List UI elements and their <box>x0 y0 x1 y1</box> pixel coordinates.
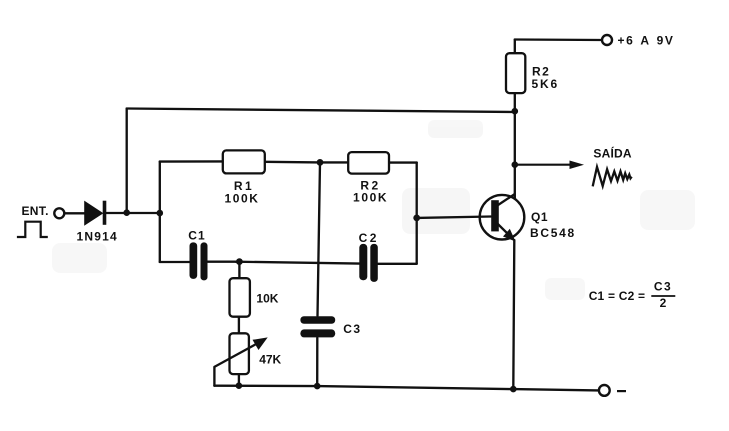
wire C2 to loop right vertical <box>378 263 417 265</box>
wire diode to left vertical <box>107 212 160 214</box>
arrow saida output <box>515 161 584 170</box>
label minus <box>617 390 626 392</box>
wire 10K to 47K <box>238 317 240 334</box>
svg-text:C3: C3 <box>343 322 361 336</box>
node C1-10K junction <box>236 258 243 265</box>
terminal ENT <box>54 208 64 218</box>
wire loop top left segment to R1 <box>160 160 223 163</box>
svg-text:2: 2 <box>660 296 667 310</box>
wire 47K to bottom rail <box>238 374 240 386</box>
wire base from loop to transistor <box>417 217 491 218</box>
waveform output sawtooth <box>593 167 632 187</box>
svg-text:ENT.: ENT. <box>22 204 49 218</box>
svg-text:BC548: BC548 <box>530 226 576 240</box>
svg-text:C1: C1 <box>188 229 205 243</box>
capacitor C1 <box>190 242 208 280</box>
wire C3 to bottom rail <box>316 338 318 386</box>
wire R2 to loop right vertical <box>389 161 417 163</box>
node ENT-feedback junction <box>123 209 130 216</box>
wire loop bottom left segment to C1 <box>160 261 190 263</box>
node ENT-loop junction <box>157 210 164 217</box>
wire R1 to node top middle <box>265 161 320 164</box>
potentiometer 47K arrow <box>214 337 267 367</box>
resistor R1 100K <box>223 150 265 173</box>
wire loop right vertical <box>416 163 418 264</box>
wire loop left vertical <box>159 162 161 262</box>
wire feedback vertical left <box>126 109 128 213</box>
wire bottom rail <box>214 386 598 391</box>
label formula fraction bar <box>651 295 675 297</box>
resistor R2 100K <box>348 152 389 174</box>
wire feedback horizontal top <box>127 109 514 113</box>
capacitor C3 <box>300 316 335 337</box>
diode D1 1N914 <box>85 201 107 225</box>
svg-text:47K: 47K <box>259 353 281 367</box>
svg-text:+6 A 9V: +6 A 9V <box>618 34 675 48</box>
wire 47K wiper return <box>213 367 215 386</box>
terminal +6A9V <box>602 35 612 45</box>
node emitter-rail junction <box>510 386 517 393</box>
capacitor C2 <box>359 244 378 282</box>
svg-text:100K: 100K <box>224 192 259 206</box>
wire junction to C2 <box>236 262 359 264</box>
svg-text:C1 = C2 =: C1 = C2 = <box>589 289 646 303</box>
wire C1 to 10K junction <box>207 261 236 263</box>
node feedback-collector junction <box>512 108 519 115</box>
resistor 10K <box>230 278 250 317</box>
wire R2 5K6 to collector node <box>514 93 516 198</box>
svg-text:1N914: 1N914 <box>77 230 118 244</box>
node 47K-rail junction <box>236 382 243 389</box>
transistor Q1 BC548 <box>480 194 525 242</box>
svg-text:10K: 10K <box>256 292 278 306</box>
node C3-rail junction <box>314 383 321 390</box>
node R1-R2 junction <box>317 159 324 166</box>
svg-text:Q1: Q1 <box>531 210 548 224</box>
wire emitter vertical to rail <box>513 240 514 389</box>
wire 10K junction down <box>238 262 240 279</box>
svg-text:C2: C2 <box>359 231 379 245</box>
node base junction <box>413 215 420 222</box>
wire middle vertical from node to C3 <box>318 162 321 315</box>
svg-text:SAÍDA: SAÍDA <box>593 146 631 161</box>
svg-text:C3: C3 <box>654 280 672 294</box>
node saida junction <box>512 161 519 168</box>
svg-text:5K6: 5K6 <box>532 77 559 91</box>
wire top supply to terminal <box>515 38 602 41</box>
wire node to R2 <box>320 161 348 163</box>
wire collector vertical <box>514 40 516 54</box>
waveform input pulse <box>17 222 48 237</box>
potentiometer 47K <box>230 333 249 374</box>
resistor R2 5K6 <box>506 53 525 93</box>
terminal minus <box>599 385 610 396</box>
svg-text:100K: 100K <box>353 191 388 205</box>
wire input from ENT terminal to diode <box>65 212 85 214</box>
